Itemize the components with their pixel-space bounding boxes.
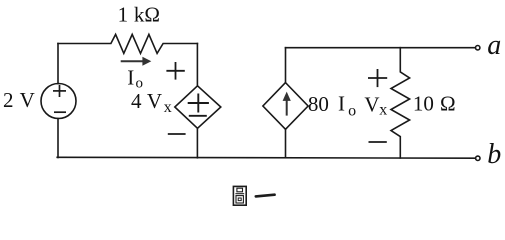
svg-text:x: x	[379, 101, 387, 118]
svg-text:I: I	[338, 92, 345, 116]
svg-text:b: b	[487, 139, 501, 170]
svg-text:1: 1	[118, 3, 129, 27]
svg-text:80: 80	[308, 92, 329, 116]
svg-text:kΩ: kΩ	[134, 3, 160, 27]
svg-text:o: o	[348, 103, 356, 120]
svg-text:I: I	[127, 65, 134, 89]
svg-text:V: V	[20, 88, 35, 112]
svg-text:4: 4	[131, 89, 142, 113]
svg-text:10: 10	[413, 91, 434, 115]
svg-text:2: 2	[3, 88, 14, 112]
svg-text:x: x	[164, 99, 172, 116]
svg-text:V: V	[147, 89, 162, 113]
svg-text:V: V	[364, 93, 379, 117]
svg-text:Ω: Ω	[440, 91, 456, 115]
svg-text:a: a	[487, 30, 501, 61]
